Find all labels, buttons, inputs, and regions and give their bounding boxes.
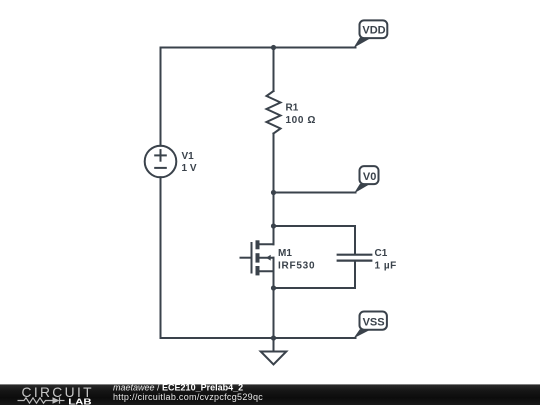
svg-text:http://circuitlab.com/cvzpcfcg: http://circuitlab.com/cvzpcfcg529qc bbox=[113, 392, 263, 402]
svg-text:VSS: VSS bbox=[363, 317, 385, 329]
svg-text:M1: M1 bbox=[278, 248, 292, 259]
svg-text:maetawee / ECE210_Prelab4_2: maetawee / ECE210_Prelab4_2 bbox=[113, 383, 243, 393]
svg-text:V0: V0 bbox=[363, 171, 376, 183]
svg-text:V1: V1 bbox=[182, 151, 195, 162]
svg-text:1 V: 1 V bbox=[182, 163, 197, 174]
svg-text:VDD: VDD bbox=[362, 25, 385, 37]
svg-text:LAB: LAB bbox=[68, 398, 91, 405]
svg-text:100 Ω: 100 Ω bbox=[286, 115, 316, 126]
svg-text:1 µF: 1 µF bbox=[375, 260, 397, 271]
svg-text:IRF530: IRF530 bbox=[278, 260, 315, 271]
svg-text:R1: R1 bbox=[286, 103, 299, 114]
svg-text:C1: C1 bbox=[375, 248, 388, 259]
